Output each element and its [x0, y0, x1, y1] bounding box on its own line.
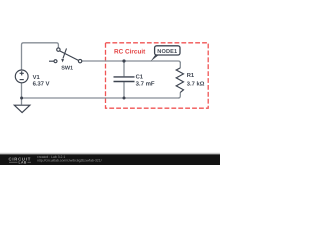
svg-text:C1: C1: [136, 74, 144, 81]
svg-text:SW1: SW1: [61, 66, 73, 72]
svg-text:3.7 mF: 3.7 mF: [136, 81, 155, 88]
svg-text:nttp://circuitlab.com/c/w/bc6g: nttp://circuitlab.com/c/w/bc6g2bzw/lab-3…: [37, 159, 102, 163]
svg-text:V1: V1: [33, 75, 41, 81]
svg-text:LAB: LAB: [19, 161, 27, 165]
svg-text:6.37 V: 6.37 V: [33, 81, 50, 88]
svg-text:NODE1: NODE1: [157, 49, 177, 55]
svg-text:3.7 kΩ: 3.7 kΩ: [187, 80, 205, 87]
svg-text:R1: R1: [187, 73, 195, 79]
svg-text:RC Circuit: RC Circuit: [114, 49, 146, 56]
